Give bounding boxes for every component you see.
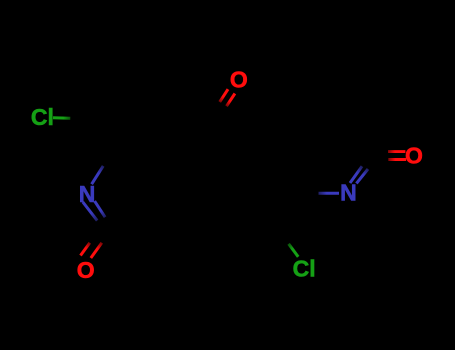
svg-text:Cl: Cl (31, 104, 54, 130)
double bond C=O left line 1 (81, 243, 90, 256)
central ketone C=O line 1 (220, 89, 228, 102)
bond C-Cl right (green half) (289, 244, 299, 257)
svg-text:N: N (340, 180, 357, 206)
svg-text:O: O (230, 66, 248, 92)
double bond N=C left line 2 (95, 201, 106, 217)
bond ring-N left (blue half) (92, 166, 104, 184)
central ketone C=O line 2 (227, 94, 235, 107)
double bond C=O right line 2 (388, 158, 406, 161)
svg-text:Cl: Cl (293, 255, 316, 281)
double bond C=O right line 1 (388, 150, 405, 153)
double bond N=C right line 1 (350, 166, 362, 183)
svg-text:O: O (405, 142, 423, 168)
svg-text:O: O (77, 257, 95, 283)
bond ring-N right (blue half) (319, 192, 340, 195)
double bond N=C left line 1 (83, 202, 97, 221)
double bond N=C right line 2 (356, 169, 368, 183)
svg-text:N: N (79, 181, 96, 207)
bond C-Cl left (green half) (53, 116, 70, 120)
double bond C=O left line 2 (91, 243, 102, 258)
